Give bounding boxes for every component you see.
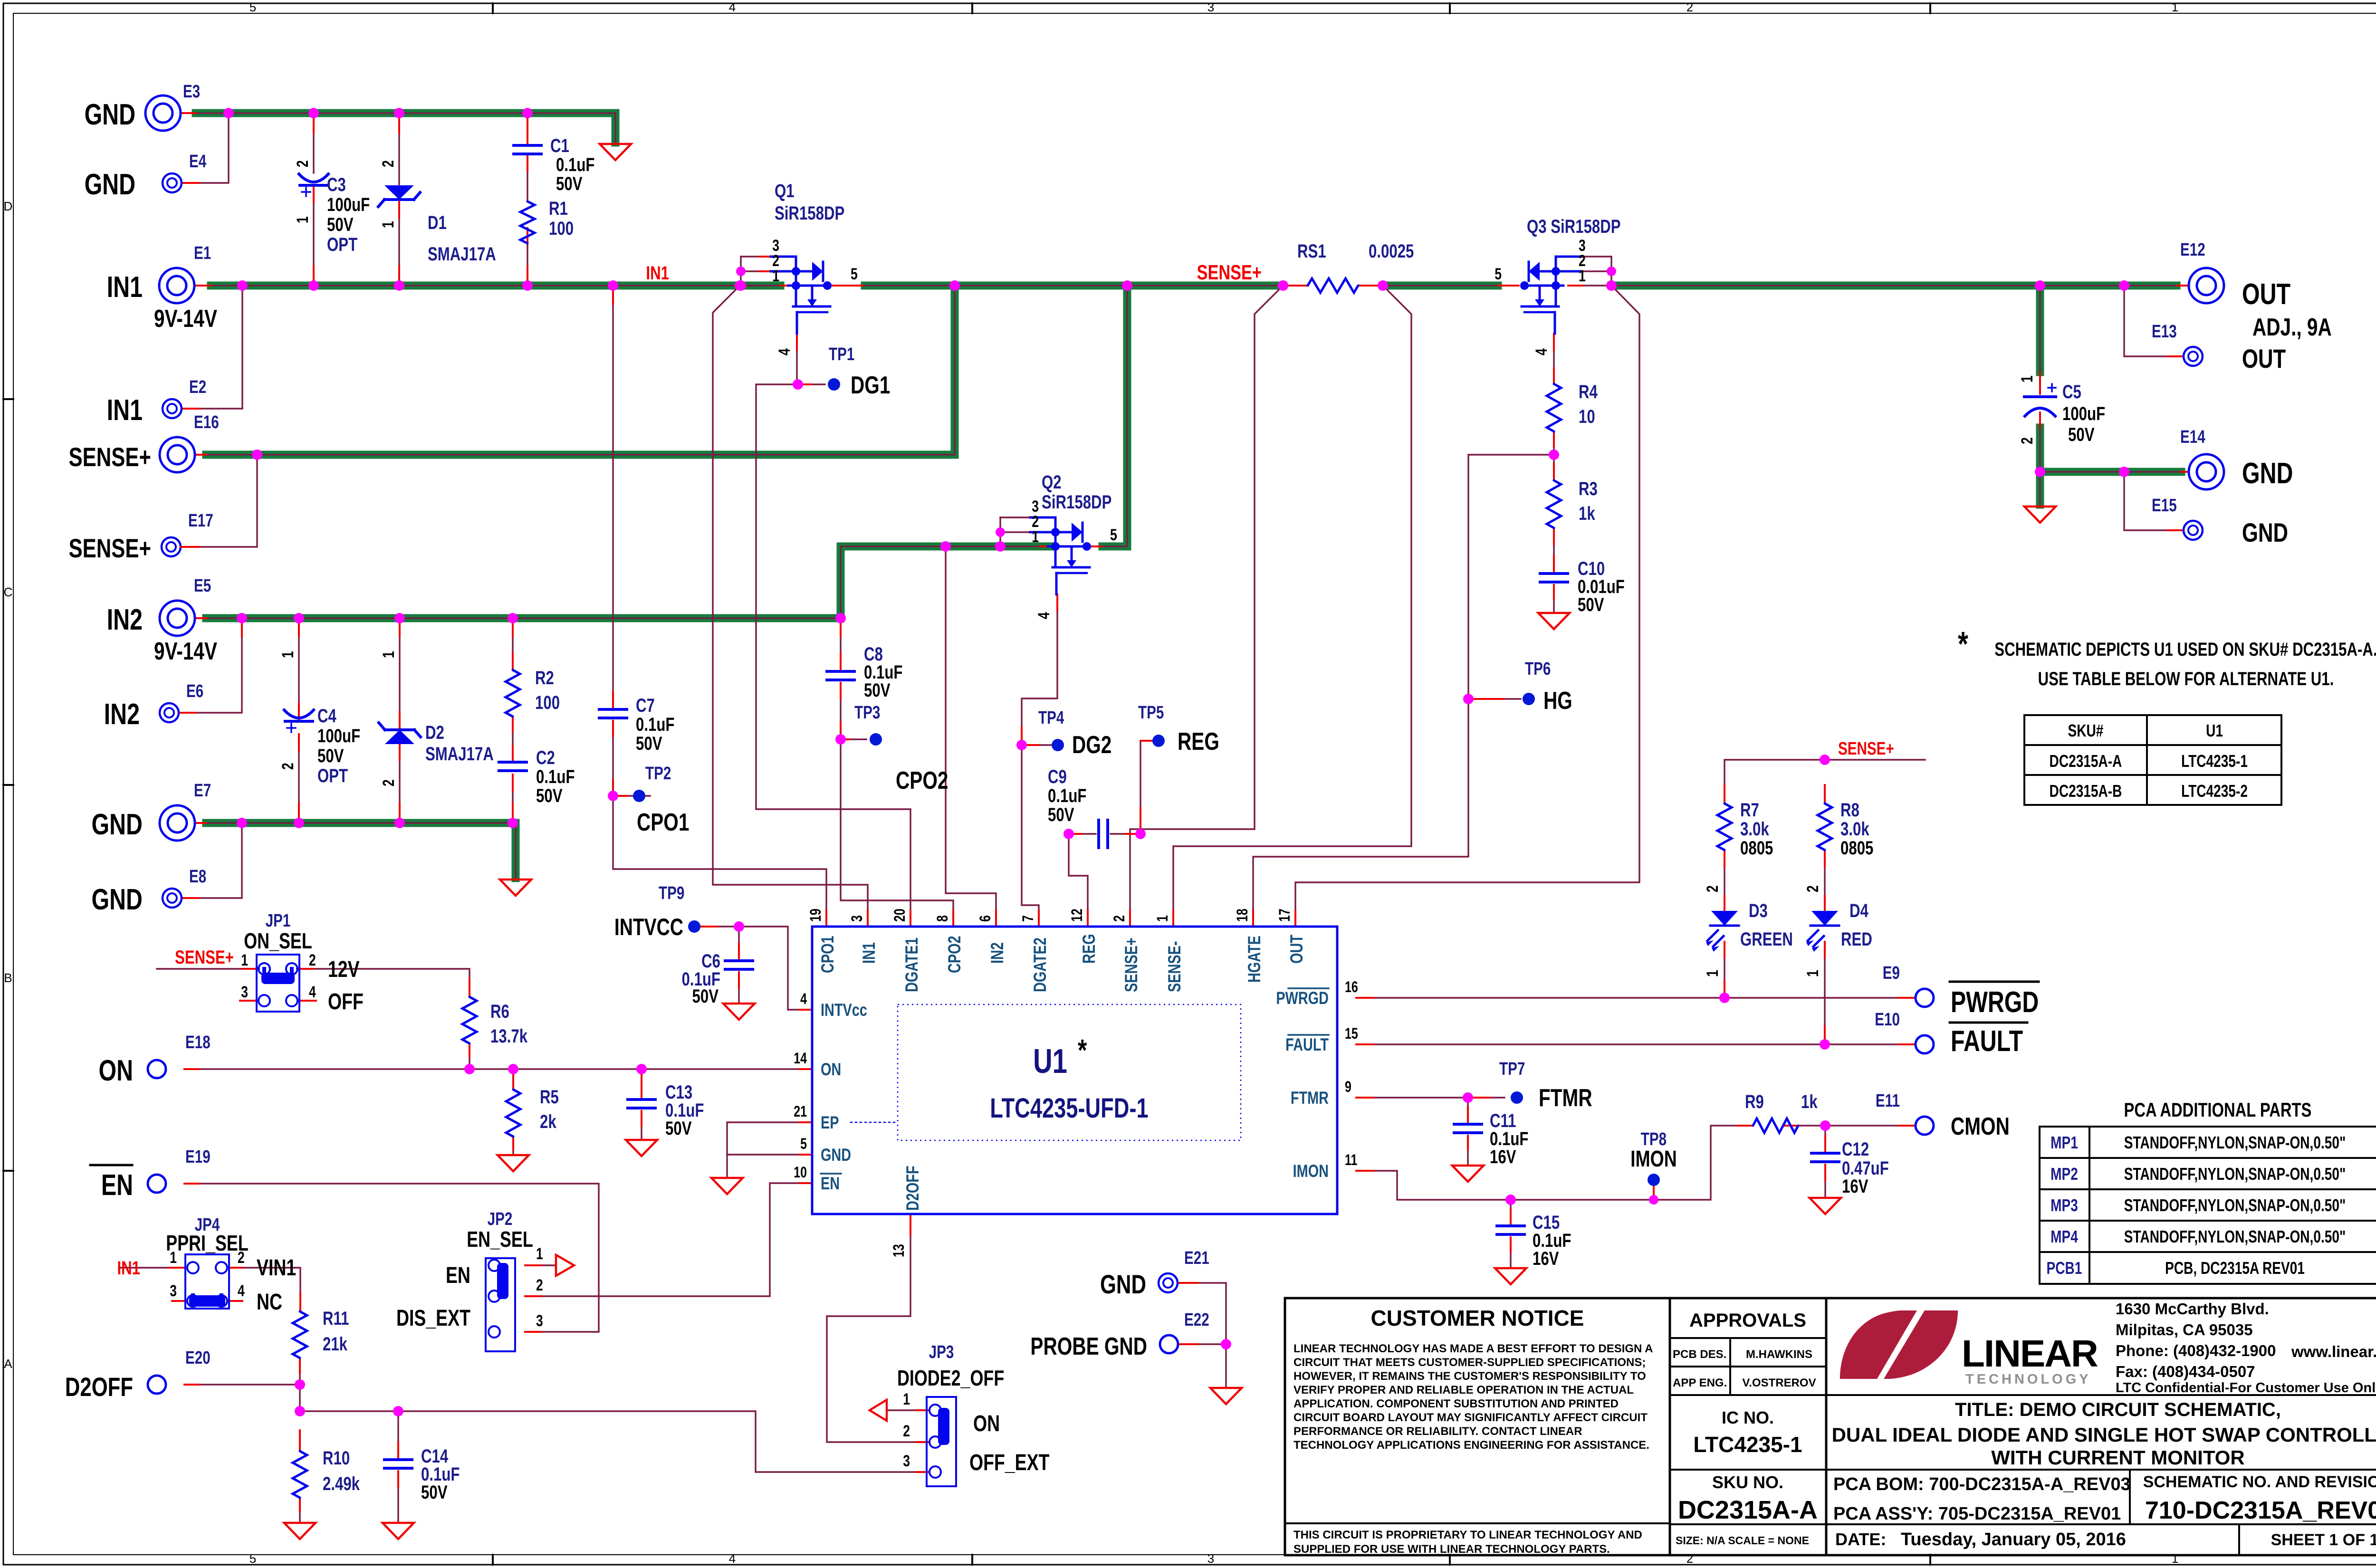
svg-text:ADJ., 9A: ADJ., 9A xyxy=(2252,313,2332,341)
wire JP4 pin1 IN1 xyxy=(119,1267,185,1268)
svg-text:C4: C4 xyxy=(317,705,336,727)
wire D1 top lead xyxy=(398,115,400,184)
svg-text:0.1uF: 0.1uF xyxy=(536,766,575,787)
wire C8 top lead xyxy=(840,621,841,670)
wire JP1 pin1 SENSE+ xyxy=(157,968,257,969)
wire C5 to GND xyxy=(2036,428,2044,505)
svg-text:FAULT: FAULT xyxy=(1951,1024,2023,1057)
capacitor C14 xyxy=(384,1458,412,1461)
terminal E13 xyxy=(2184,347,2203,366)
svg-text:R11: R11 xyxy=(323,1308,349,1329)
svg-text:TECHNOLOGY: TECHNOLOGY xyxy=(1965,1372,2091,1387)
svg-text:E18: E18 xyxy=(185,1033,211,1052)
svg-text:SENSE+: SENSE+ xyxy=(1838,739,1894,759)
svg-text:E8: E8 xyxy=(189,867,206,887)
svg-text:1: 1 xyxy=(2172,1551,2178,1566)
wire R1 bottom lead xyxy=(527,243,528,283)
svg-text:SiR158DP: SiR158DP xyxy=(775,202,844,224)
svg-text:D4: D4 xyxy=(1849,900,1868,921)
ground xyxy=(2024,507,2056,523)
wire OUT drop to pin17 xyxy=(1295,286,1639,910)
svg-text:6: 6 xyxy=(977,915,994,922)
svg-text:5: 5 xyxy=(1495,265,1502,283)
no-connect arrow JP2 pin1 xyxy=(556,1255,574,1276)
resistor R3 xyxy=(1547,480,1561,528)
svg-text:CPO1: CPO1 xyxy=(637,808,689,836)
svg-text:Fax: (408)434-0507: Fax: (408)434-0507 xyxy=(2116,1363,2255,1380)
svg-text:TP5: TP5 xyxy=(1138,703,1164,723)
wire Q1 pin1 xyxy=(741,285,770,286)
svg-text:D: D xyxy=(4,199,13,213)
svg-text:1: 1 xyxy=(2018,375,2036,382)
wire R7 to D3 xyxy=(1724,850,1725,910)
wire Q2 pin bracket xyxy=(999,517,1001,546)
svg-text:1630 McCarthy Blvd.: 1630 McCarthy Blvd. xyxy=(2116,1300,2269,1318)
svg-text:E10: E10 xyxy=(1875,1010,1900,1030)
table SKU xyxy=(2024,715,2281,805)
svg-text:PCB DES.: PCB DES. xyxy=(1673,1348,1726,1361)
svg-text:Phone: (408)432-1900: Phone: (408)432-1900 xyxy=(2116,1342,2276,1359)
svg-text:ON: ON xyxy=(821,1060,841,1080)
wire OUT to C5 xyxy=(2036,286,2044,372)
wire FTMR to TP7 xyxy=(1356,1097,1468,1098)
svg-text:10: 10 xyxy=(1579,406,1595,427)
svg-text:4: 4 xyxy=(776,348,794,355)
terminal E1 xyxy=(159,268,194,303)
svg-text:CMON: CMON xyxy=(1951,1112,2010,1140)
terminal E3 xyxy=(145,96,181,131)
svg-text:E5: E5 xyxy=(194,576,211,596)
terminal E8 xyxy=(163,889,182,908)
svg-text:EN: EN xyxy=(821,1174,840,1194)
svg-text:A: A xyxy=(4,1357,12,1371)
svg-text:4: 4 xyxy=(309,983,316,1001)
svg-text:1: 1 xyxy=(1032,528,1039,546)
wire D2OFF node to JP3 pin3 xyxy=(300,1411,916,1472)
wire C6 top lead xyxy=(738,927,739,960)
wire C7 to TP2 xyxy=(612,721,613,796)
svg-text:IN1: IN1 xyxy=(646,262,669,284)
terminal E16 xyxy=(160,437,195,472)
svg-text:E21: E21 xyxy=(1184,1248,1209,1268)
svg-text:OPT: OPT xyxy=(317,765,348,786)
test point TP2 xyxy=(608,791,618,801)
svg-text:V.OSTREROV: V.OSTREROV xyxy=(1742,1377,1816,1389)
svg-text:R4: R4 xyxy=(1579,381,1598,402)
svg-text:PCB1: PCB1 xyxy=(2047,1259,2082,1278)
svg-text:INTVCC: INTVCC xyxy=(614,913,683,940)
junction Q1 bracket xyxy=(736,267,746,276)
svg-text:EN: EN xyxy=(446,1263,470,1289)
svg-text:20: 20 xyxy=(891,908,909,922)
svg-text:1: 1 xyxy=(294,216,312,223)
wire R2-C2 link xyxy=(512,717,513,761)
svg-text:INTVcc: INTVcc xyxy=(821,1001,867,1020)
svg-text:Tuesday, January 05, 2016: Tuesday, January 05, 2016 xyxy=(1901,1530,2126,1549)
svg-text:12V: 12V xyxy=(328,957,360,983)
svg-text:DG2: DG2 xyxy=(1072,731,1111,758)
junction dots xyxy=(223,108,234,118)
svg-text:JP3: JP3 xyxy=(929,1342,954,1362)
svg-text:21: 21 xyxy=(794,1103,807,1120)
svg-text:1k: 1k xyxy=(1579,503,1595,524)
svg-text:MP3: MP3 xyxy=(2050,1196,2078,1215)
svg-text:GREEN: GREEN xyxy=(1740,928,1793,950)
wire GND pin5 xyxy=(727,1154,812,1155)
junction R9 C12 xyxy=(1820,1120,1830,1131)
wire C14 bottom lead xyxy=(397,1471,399,1521)
svg-text:VERIFY PROPER AND RELIABLE OPE: VERIFY PROPER AND RELIABLE OPERATION IN … xyxy=(1293,1384,1634,1396)
capacitor C11 xyxy=(1454,1123,1482,1126)
wire E2 to IN1 bus xyxy=(182,288,242,409)
svg-text:710-DC2315A_REV02: 710-DC2315A_REV02 xyxy=(2145,1497,2376,1524)
svg-text:TP2: TP2 xyxy=(645,764,671,784)
wire OUT bus Q3-E12 xyxy=(1611,282,2176,290)
wire C11 top lead xyxy=(1467,1098,1468,1123)
wire TP3 stub xyxy=(841,738,866,740)
svg-text:50V: 50V xyxy=(692,985,719,1007)
wire C9 to REG pin12 xyxy=(1069,834,1088,910)
svg-text:3: 3 xyxy=(170,1282,177,1300)
wire ON node xyxy=(184,1068,812,1070)
svg-text:18: 18 xyxy=(1234,908,1251,922)
capacitor C13 xyxy=(628,1098,655,1101)
svg-text:SHEET 1 OF 1: SHEET 1 OF 1 xyxy=(2271,1531,2376,1549)
test point TP3 xyxy=(835,734,846,745)
wire TP5 stub xyxy=(1140,740,1152,741)
svg-text:STANDOFF,NYLON,SNAP-ON,0.50": STANDOFF,NYLON,SNAP-ON,0.50" xyxy=(2124,1196,2346,1215)
svg-text:11: 11 xyxy=(1345,1152,1357,1169)
svg-text:C12: C12 xyxy=(1842,1138,1869,1160)
svg-text:RED: RED xyxy=(1841,928,1872,950)
svg-text:R1: R1 xyxy=(549,198,568,219)
svg-text:SENSE+: SENSE+ xyxy=(68,442,151,472)
wire C11 bottom lead xyxy=(1467,1136,1468,1164)
wire EN pin10 to JP2 xyxy=(541,1183,812,1296)
wire C13 bottom lead xyxy=(641,1111,642,1138)
junction Q3 bracket xyxy=(1607,267,1616,276)
wire Q1 gate xyxy=(796,334,797,384)
wire D1 bottom lead xyxy=(398,201,400,283)
ground xyxy=(1210,1388,1242,1404)
svg-text:www.linear.com: www.linear.com xyxy=(2291,1343,2376,1360)
svg-text:3.0k: 3.0k xyxy=(1840,818,1869,840)
wire TP2 stub xyxy=(613,795,650,796)
wire IMON node xyxy=(1356,1126,1737,1200)
svg-text:CIRCUIT BOARD LAYOUT MAY SIGNI: CIRCUIT BOARD LAYOUT MAY SIGNIFICANTLY A… xyxy=(1293,1411,1648,1424)
test point TP9 xyxy=(688,920,700,933)
wire IN2 to pin6 xyxy=(946,549,996,910)
capacitor C7 xyxy=(599,708,627,711)
svg-text:E14: E14 xyxy=(2180,427,2205,447)
terminal E6 xyxy=(160,703,179,722)
svg-text:GND: GND xyxy=(85,168,135,201)
svg-text:R8: R8 xyxy=(1840,799,1859,821)
svg-text:PPRI_SEL: PPRI_SEL xyxy=(166,1231,248,1255)
wire C8 to TP3 xyxy=(840,683,841,739)
terminal E11 xyxy=(1916,1117,1934,1135)
wire R5 bottom lead xyxy=(512,1137,514,1154)
resistor R7 xyxy=(1717,803,1732,850)
svg-text:IN2: IN2 xyxy=(107,603,143,636)
svg-text:R6: R6 xyxy=(490,1001,509,1022)
svg-text:1: 1 xyxy=(536,1245,543,1263)
capacitor C8 xyxy=(827,670,854,673)
wire E19 to JP2 pin3 xyxy=(184,1184,599,1332)
svg-text:OUT: OUT xyxy=(2242,277,2290,310)
wire SENSE+ to R7 R8 xyxy=(1725,760,1925,802)
ground xyxy=(723,1004,755,1020)
svg-text:50V: 50V xyxy=(2068,424,2095,445)
diode D3 LED xyxy=(1711,911,1738,926)
svg-text:0.1uF: 0.1uF xyxy=(1048,785,1086,806)
wire C15 bottom lead xyxy=(1510,1237,1511,1267)
svg-text:C9: C9 xyxy=(1048,766,1067,787)
wire Q2 pin2 xyxy=(1000,531,1029,533)
ground xyxy=(1538,613,1570,629)
svg-text:9V-14V: 9V-14V xyxy=(154,637,217,665)
wire C4 top lead xyxy=(298,621,299,720)
junction Q2 bracket xyxy=(996,527,1005,537)
svg-text:TP9: TP9 xyxy=(659,883,684,903)
resistor R10 xyxy=(293,1451,307,1498)
svg-text:THIS CIRCUIT IS PROPRIETARY TO: THIS CIRCUIT IS PROPRIETARY TO LINEAR TE… xyxy=(1293,1529,1642,1541)
svg-text:IN1: IN1 xyxy=(107,393,143,426)
svg-text:TP1: TP1 xyxy=(829,344,854,364)
wire R10 bottom lead xyxy=(299,1498,300,1521)
resistor R6 xyxy=(462,997,477,1043)
svg-text:3: 3 xyxy=(1207,0,1214,14)
svg-text:7: 7 xyxy=(1020,915,1037,922)
capacitor C12 xyxy=(1811,1152,1839,1155)
ground xyxy=(498,1155,529,1171)
svg-text:100: 100 xyxy=(535,692,560,713)
wire Q2 gate to TP4 xyxy=(1022,594,1057,745)
svg-text:1: 1 xyxy=(1154,915,1171,922)
svg-text:100uF: 100uF xyxy=(327,194,370,215)
svg-text:DATE:: DATE: xyxy=(1835,1530,1886,1549)
wire RS1 right lead xyxy=(1358,285,1383,286)
wire R6 bottom lead xyxy=(469,1043,470,1069)
svg-text:OFF_EXT: OFF_EXT xyxy=(969,1450,1049,1476)
wire E6 to IN2 bus xyxy=(179,621,242,713)
svg-text:3.0k: 3.0k xyxy=(1740,818,1769,840)
svg-text:PCB, DC2315A REV01: PCB, DC2315A REV01 xyxy=(2165,1259,2305,1278)
svg-text:PCA ADDITIONAL PARTS: PCA ADDITIONAL PARTS xyxy=(2124,1099,2312,1121)
svg-text:10: 10 xyxy=(794,1164,807,1181)
svg-text:WITH CURRENT MONITOR: WITH CURRENT MONITOR xyxy=(1991,1446,2245,1469)
svg-text:1k: 1k xyxy=(1801,1091,1818,1112)
diode D1 xyxy=(384,185,414,200)
svg-text:GND: GND xyxy=(85,98,135,131)
svg-text:E7: E7 xyxy=(194,781,211,801)
junction D3 PWRGD xyxy=(1719,993,1730,1003)
svg-text:1: 1 xyxy=(1704,970,1722,977)
wire RS1 left lead xyxy=(1283,285,1308,286)
svg-text:4: 4 xyxy=(238,1282,245,1300)
wire C10 bottom lead xyxy=(1553,585,1554,612)
wire E4 to GND1 bus xyxy=(200,115,229,183)
title block xyxy=(1285,1298,2376,1555)
svg-text:SENSE+: SENSE+ xyxy=(1122,937,1141,992)
terminal E5 xyxy=(160,601,195,636)
svg-text:EN: EN xyxy=(101,1168,133,1201)
svg-text:OFF: OFF xyxy=(328,989,364,1015)
wire TP2 to CPO1 pin19 xyxy=(613,796,826,910)
svg-text:OPT: OPT xyxy=(327,234,357,255)
svg-text:3: 3 xyxy=(536,1312,543,1330)
wire D3 to PWRGD xyxy=(1724,942,1725,998)
svg-text:SENSE+: SENSE+ xyxy=(68,534,151,563)
svg-text:IN2: IN2 xyxy=(104,698,140,730)
svg-text:PCA BOM: 700-DC2315A-A_REV03: PCA BOM: 700-DC2315A-A_REV03 xyxy=(1833,1474,2131,1494)
wire E15 to GND xyxy=(2124,475,2184,530)
svg-text:MP2: MP2 xyxy=(2050,1165,2078,1184)
svg-text:DGATE1: DGATE1 xyxy=(902,937,922,992)
terminal E10 xyxy=(1916,1035,1934,1053)
wire R2 top lead xyxy=(512,621,513,670)
svg-text:16V: 16V xyxy=(1490,1146,1516,1167)
resistor R8 xyxy=(1818,803,1832,850)
wire E17 to SENSE+ bus xyxy=(181,459,257,547)
svg-text:ON: ON xyxy=(973,1411,1000,1437)
svg-text:LINEAR: LINEAR xyxy=(1962,1332,2098,1375)
svg-text:EP: EP xyxy=(821,1113,839,1133)
terminal E15 xyxy=(2184,521,2203,540)
svg-text:RS1: RS1 xyxy=(1297,240,1326,262)
svg-text:STANDOFF,NYLON,SNAP-ON,0.50": STANDOFF,NYLON,SNAP-ON,0.50" xyxy=(2124,1133,2346,1152)
wire D2OFF pin13 to JP3 pin2 xyxy=(827,1235,916,1442)
wire IN1 drop to pin3 xyxy=(713,286,868,910)
wire E8 to GND2 bus xyxy=(182,825,242,898)
wire Q2 pin1 xyxy=(1000,545,1029,547)
svg-text:DIS_EXT: DIS_EXT xyxy=(396,1306,470,1331)
svg-text:SMAJ17A: SMAJ17A xyxy=(428,243,496,265)
svg-text:GND: GND xyxy=(2242,518,2288,547)
svg-text:R9: R9 xyxy=(1745,1091,1764,1112)
svg-text:E9: E9 xyxy=(1883,963,1900,983)
svg-text:TP7: TP7 xyxy=(1499,1059,1525,1079)
junction E20 node xyxy=(295,1379,305,1390)
svg-text:PWRGD: PWRGD xyxy=(1276,989,1329,1008)
svg-text:STANDOFF,NYLON,SNAP-ON,0.50": STANDOFF,NYLON,SNAP-ON,0.50" xyxy=(2124,1227,2346,1246)
svg-text:3: 3 xyxy=(241,983,248,1001)
wire TP5 to C9 xyxy=(1140,741,1141,829)
svg-text:LTC4235-1: LTC4235-1 xyxy=(1693,1432,1802,1457)
ground xyxy=(284,1523,316,1539)
svg-text:50V: 50V xyxy=(327,214,354,235)
terminal E17 xyxy=(162,537,181,556)
wire R4 to R3 xyxy=(1553,431,1554,480)
wire SENSE+ drop to pin2 xyxy=(1130,286,1283,910)
transistor Q2 xyxy=(1054,517,1057,567)
svg-text:D2OFF: D2OFF xyxy=(903,1166,923,1211)
svg-text:Q3 SiR158DP: Q3 SiR158DP xyxy=(1527,216,1621,237)
wire EP to GND node xyxy=(727,1122,812,1176)
wire Q3 pin2 xyxy=(1574,270,1611,272)
svg-text:REG: REG xyxy=(1178,727,1219,755)
svg-text:2: 2 xyxy=(1704,885,1722,892)
wire Q1 pin3 xyxy=(741,256,770,257)
svg-text:5: 5 xyxy=(851,265,858,283)
svg-text:4: 4 xyxy=(729,1551,736,1566)
terminal E7 xyxy=(160,805,195,841)
svg-text:2: 2 xyxy=(279,763,297,770)
svg-text:DG1: DG1 xyxy=(851,371,890,399)
wire PWRGD to E9 xyxy=(1356,997,1914,998)
svg-text:GND: GND xyxy=(1100,1270,1146,1299)
svg-text:2: 2 xyxy=(536,1276,543,1294)
svg-text:CIRCUIT THAT MEETS CUSTOMER-SU: CIRCUIT THAT MEETS CUSTOMER-SUPPLIED SPE… xyxy=(1293,1356,1646,1369)
svg-text:SENSE+: SENSE+ xyxy=(175,947,234,968)
terminal E22 xyxy=(1160,1335,1178,1353)
svg-text:E22: E22 xyxy=(1184,1310,1209,1330)
svg-text:C7: C7 xyxy=(636,695,655,716)
svg-text:E19: E19 xyxy=(185,1147,211,1167)
svg-text:Q1: Q1 xyxy=(775,180,795,201)
wire TP4 to DGATE2 pin7 xyxy=(1022,745,1039,910)
ground xyxy=(1810,1198,1841,1214)
junction E21 E22 xyxy=(1221,1339,1231,1349)
wire R9 to E11 xyxy=(1798,1125,1914,1126)
svg-text:50V: 50V xyxy=(421,1482,448,1503)
svg-text:50V: 50V xyxy=(556,173,583,194)
no-connect arrow JP3 pin1 xyxy=(870,1400,887,1421)
svg-text:OUT: OUT xyxy=(1287,935,1307,964)
svg-text:0805: 0805 xyxy=(1840,837,1873,859)
svg-text:4: 4 xyxy=(1035,612,1053,619)
svg-text:IN1: IN1 xyxy=(117,1257,140,1279)
EP dotted link xyxy=(851,1122,898,1123)
terminal E19 xyxy=(148,1175,166,1193)
svg-text:1: 1 xyxy=(772,267,779,285)
wire FAULT to E10 xyxy=(1356,1043,1914,1045)
wire Q2 pin3 xyxy=(1000,516,1029,518)
svg-text:C3: C3 xyxy=(327,174,346,195)
svg-text:100: 100 xyxy=(549,218,574,239)
wire GND2 bus xyxy=(206,823,516,878)
wire TP6 stub xyxy=(1468,698,1521,699)
wire SENSE- drop to pin1 xyxy=(1173,286,1411,910)
transistor Q3 xyxy=(1555,257,1557,306)
wire JP1 pin2 12V to R6 xyxy=(297,969,469,996)
svg-text:R10: R10 xyxy=(323,1447,350,1469)
svg-text:3: 3 xyxy=(849,915,866,922)
wire Q3 pin3 xyxy=(1574,256,1611,257)
svg-text:E17: E17 xyxy=(188,511,213,531)
test point TP5 xyxy=(1152,735,1165,747)
svg-text:E11: E11 xyxy=(1876,1091,1900,1111)
svg-text:E6: E6 xyxy=(186,681,203,701)
resistor R11 xyxy=(293,1311,307,1358)
svg-text:TECHNOLOGY APPLICATIONS ENGINE: TECHNOLOGY APPLICATIONS ENGINEERING FOR … xyxy=(1293,1439,1649,1452)
svg-text:E2: E2 xyxy=(189,377,206,397)
svg-text:CPO2: CPO2 xyxy=(945,936,965,973)
svg-text:IN1: IN1 xyxy=(860,942,879,964)
svg-text:21k: 21k xyxy=(323,1333,347,1355)
junction C13 ON xyxy=(636,1064,647,1074)
svg-text:PWRGD: PWRGD xyxy=(1951,985,2039,1018)
svg-text:19: 19 xyxy=(807,908,824,922)
svg-text:2: 2 xyxy=(1686,1551,1693,1566)
svg-text:LINEAR TECHNOLOGY HAS MADE A B: LINEAR TECHNOLOGY HAS MADE A BEST EFFORT… xyxy=(1293,1342,1653,1355)
svg-text:1: 1 xyxy=(1804,970,1822,977)
wire C15 top lead xyxy=(1510,1200,1511,1225)
svg-text:HG: HG xyxy=(1543,687,1572,714)
svg-text:1: 1 xyxy=(380,651,398,658)
test point TP8 xyxy=(1649,1195,1658,1205)
svg-text:C2: C2 xyxy=(536,747,555,768)
